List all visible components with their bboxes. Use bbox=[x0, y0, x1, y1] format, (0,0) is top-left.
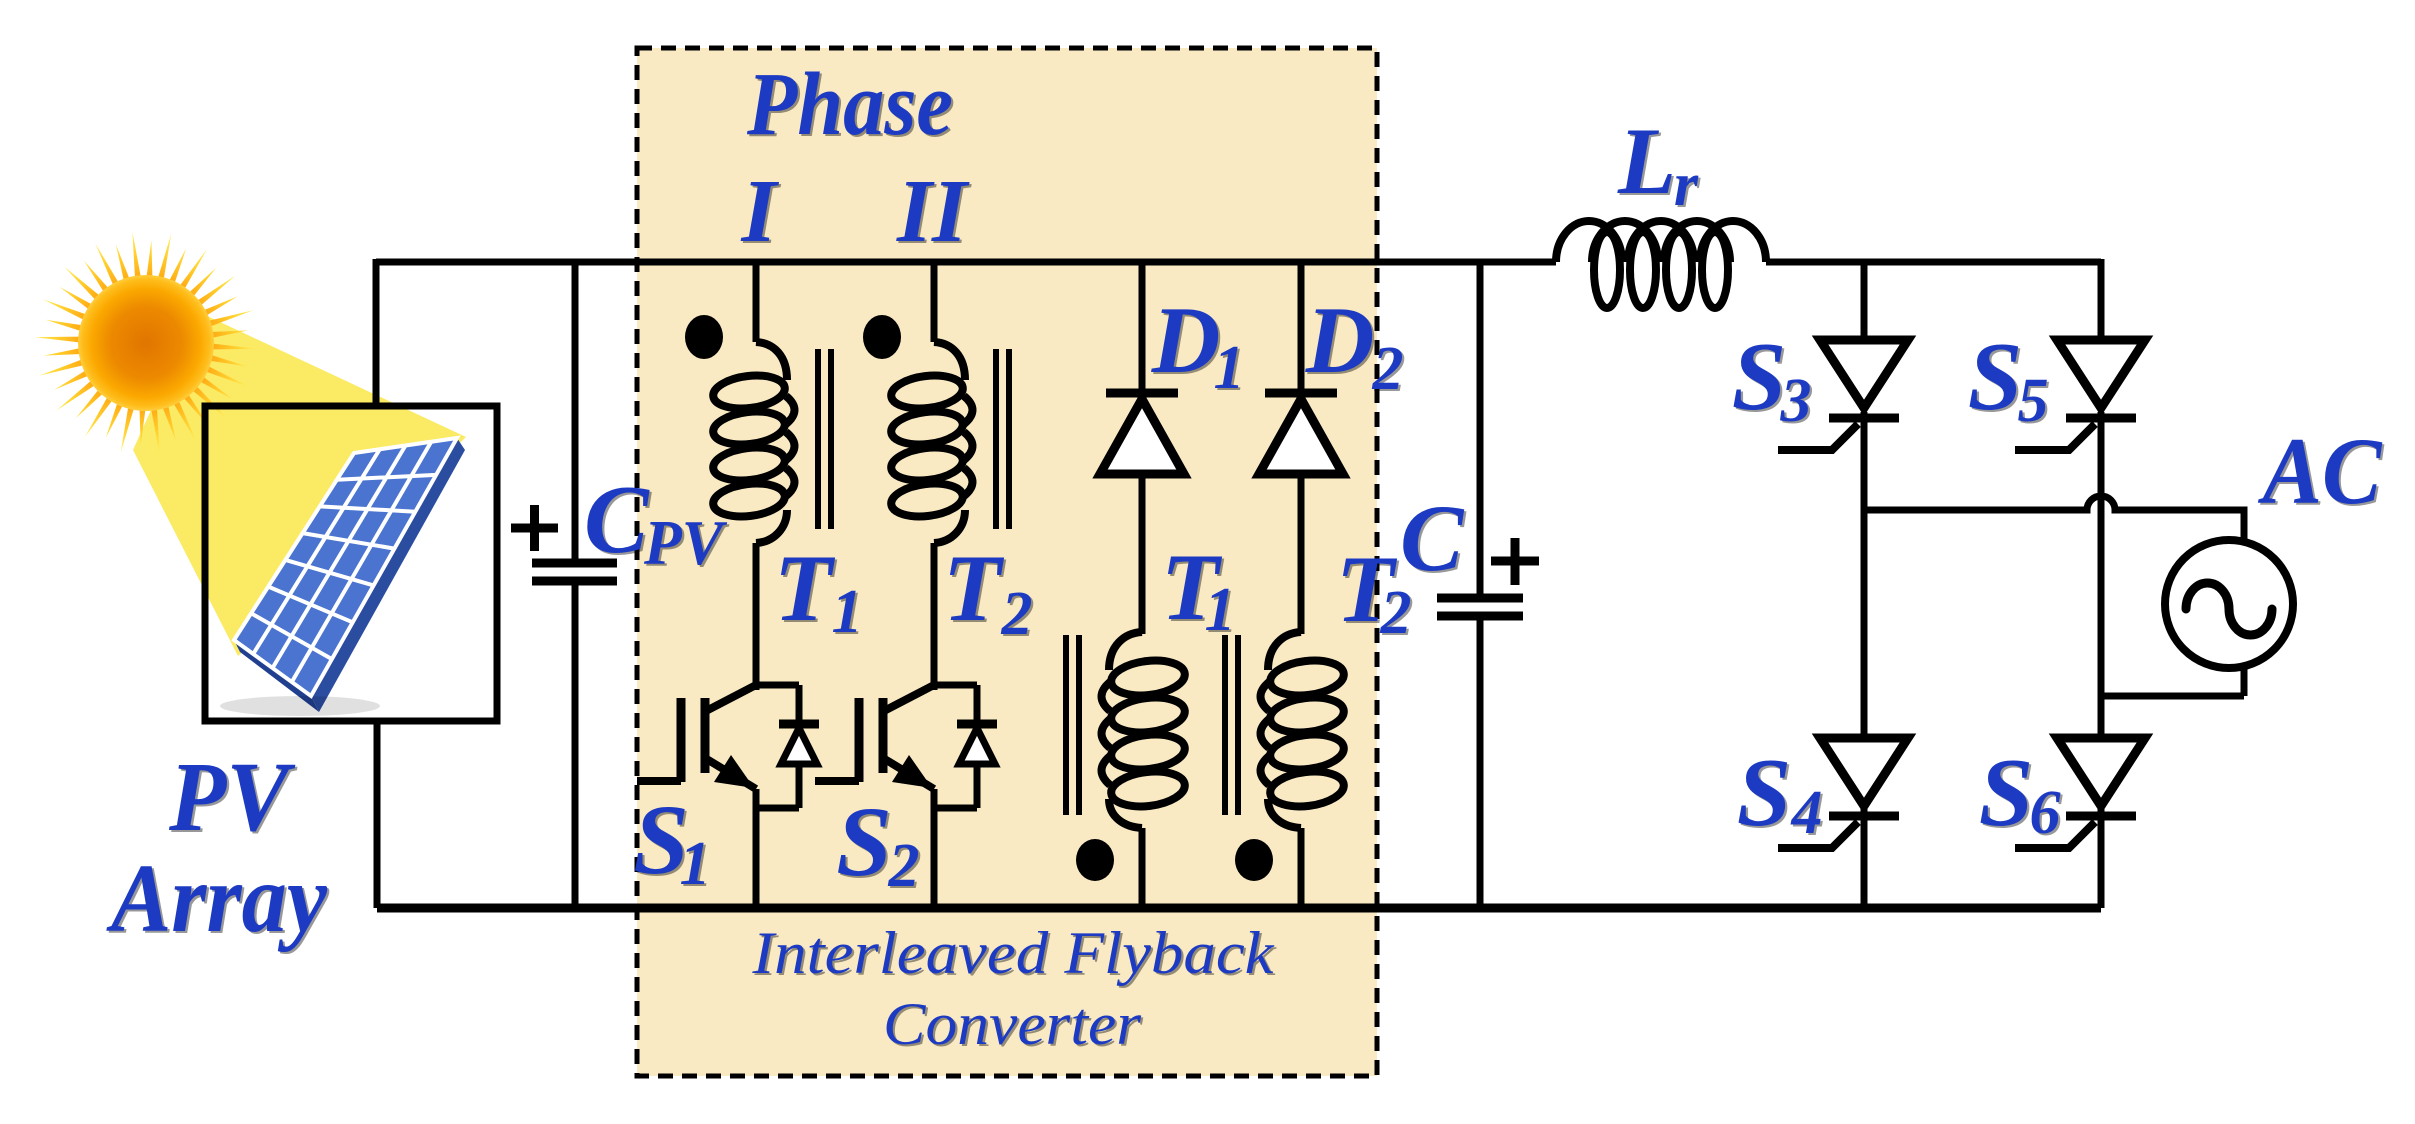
svg-text:S: S bbox=[1732, 323, 1787, 431]
wire bridge midpoint to AC with crossover hop bbox=[1864, 496, 2244, 545]
svg-text:Phase: Phase bbox=[746, 55, 953, 154]
svg-text:1: 1 bbox=[1214, 334, 1245, 402]
svg-text:S: S bbox=[1968, 323, 2023, 431]
svg-text:C: C bbox=[584, 466, 650, 573]
svg-text:T: T bbox=[943, 535, 1005, 641]
wire bottom bus bbox=[377, 904, 2101, 913]
transformer T1 core bbox=[818, 349, 831, 529]
label C bbox=[1400, 485, 1467, 593]
svg-text:2: 2 bbox=[888, 832, 920, 900]
label AC bbox=[2258, 418, 2385, 526]
thyristor S4 bbox=[1778, 738, 1908, 848]
switch S1 (IGBT) bbox=[637, 685, 819, 908]
label Converter bbox=[883, 991, 1144, 1059]
svg-text:2: 2 bbox=[1372, 335, 1404, 403]
capacitor C bbox=[1437, 262, 1539, 908]
AC source bbox=[2101, 540, 2293, 696]
svg-text:5: 5 bbox=[2018, 367, 2049, 435]
svg-text:D: D bbox=[1151, 287, 1221, 393]
switch S2 (IGBT) bbox=[815, 685, 997, 908]
label T1 secondary bbox=[1161, 534, 1238, 646]
label phase II bbox=[896, 162, 972, 263]
label D1 bbox=[1151, 287, 1247, 404]
label Lr bbox=[1617, 108, 1701, 221]
svg-text:1: 1 bbox=[1205, 576, 1236, 644]
interleaved flyback converter enclosure bbox=[637, 48, 1377, 1076]
svg-text:AC: AC bbox=[2258, 418, 2383, 524]
label Interleaved Flyback bbox=[751, 920, 1277, 988]
capacitor CPV bbox=[511, 262, 617, 908]
svg-text:C: C bbox=[1400, 485, 1465, 591]
svg-text:S: S bbox=[1737, 739, 1792, 847]
svg-text:Interleaved Flyback: Interleaved Flyback bbox=[751, 920, 1275, 986]
svg-text:PV: PV bbox=[168, 741, 296, 852]
label S4 bbox=[1737, 739, 1825, 849]
svg-text:2: 2 bbox=[1001, 580, 1033, 648]
wire bridge left leg bbox=[1861, 259, 1868, 908]
thyristor S6 bbox=[2015, 738, 2145, 848]
svg-text:S: S bbox=[836, 786, 892, 897]
wire top bus bbox=[376, 259, 2101, 266]
transformer T2 core bbox=[996, 349, 1009, 529]
transformer T1 secondary winding bbox=[1102, 632, 1187, 908]
svg-text:PV: PV bbox=[643, 507, 728, 578]
wire PV to bottom bus bbox=[374, 721, 381, 908]
svg-text:D: D bbox=[1305, 287, 1375, 393]
thyristor S3 bbox=[1778, 340, 1908, 450]
sunlight beam bbox=[133, 315, 466, 656]
T2 primary polarity dot bbox=[863, 315, 901, 359]
PV array box bbox=[205, 406, 497, 721]
label S2 bbox=[836, 786, 922, 902]
svg-text:3: 3 bbox=[1780, 367, 1812, 435]
label S1 bbox=[633, 784, 713, 900]
label S3 bbox=[1732, 323, 1814, 437]
wire PV to top bus bbox=[373, 259, 380, 406]
T1 primary polarity dot bbox=[685, 315, 723, 359]
transformer T2 secondary winding bbox=[1261, 632, 1346, 908]
svg-text:1: 1 bbox=[680, 830, 711, 898]
inductor Lr bbox=[1556, 221, 1766, 308]
svg-text:4: 4 bbox=[1791, 779, 1823, 847]
thyristor S5 bbox=[2015, 340, 2145, 450]
wire bridge right leg bbox=[2098, 259, 2105, 908]
label T2 primary bbox=[943, 535, 1035, 650]
label CPV bbox=[584, 466, 730, 580]
svg-text:1: 1 bbox=[832, 578, 863, 646]
label D2 bbox=[1305, 287, 1406, 405]
label T1 primary bbox=[774, 535, 865, 648]
svg-text:Array: Array bbox=[105, 845, 327, 953]
svg-text:S: S bbox=[1979, 739, 2034, 847]
label T2 secondary bbox=[1336, 536, 1414, 649]
transformer T2 secondary core bbox=[1225, 635, 1238, 815]
label S6 bbox=[1979, 739, 2063, 849]
transformer T1 primary winding bbox=[711, 262, 794, 690]
svg-text:L: L bbox=[1617, 108, 1676, 214]
label Phase bbox=[746, 55, 955, 156]
diode D2 bbox=[1259, 259, 1343, 634]
svg-text:Converter: Converter bbox=[883, 991, 1142, 1057]
svg-text:II: II bbox=[896, 162, 970, 261]
sun bbox=[34, 232, 258, 454]
svg-text:r: r bbox=[1674, 151, 1699, 219]
label PV Array bbox=[105, 741, 329, 955]
diode D1 bbox=[1100, 259, 1184, 634]
svg-text:6: 6 bbox=[2030, 779, 2061, 847]
transformer T2 primary winding bbox=[889, 262, 972, 690]
PV panel bbox=[220, 438, 465, 716]
label phase I bbox=[740, 162, 781, 263]
label S5 bbox=[1968, 323, 2051, 437]
svg-text:T: T bbox=[774, 535, 836, 641]
transformer T1 secondary core bbox=[1066, 635, 1079, 815]
T2 secondary polarity dot bbox=[1235, 839, 1273, 881]
T1 secondary polarity dot bbox=[1076, 839, 1114, 881]
svg-text:I: I bbox=[740, 162, 779, 261]
